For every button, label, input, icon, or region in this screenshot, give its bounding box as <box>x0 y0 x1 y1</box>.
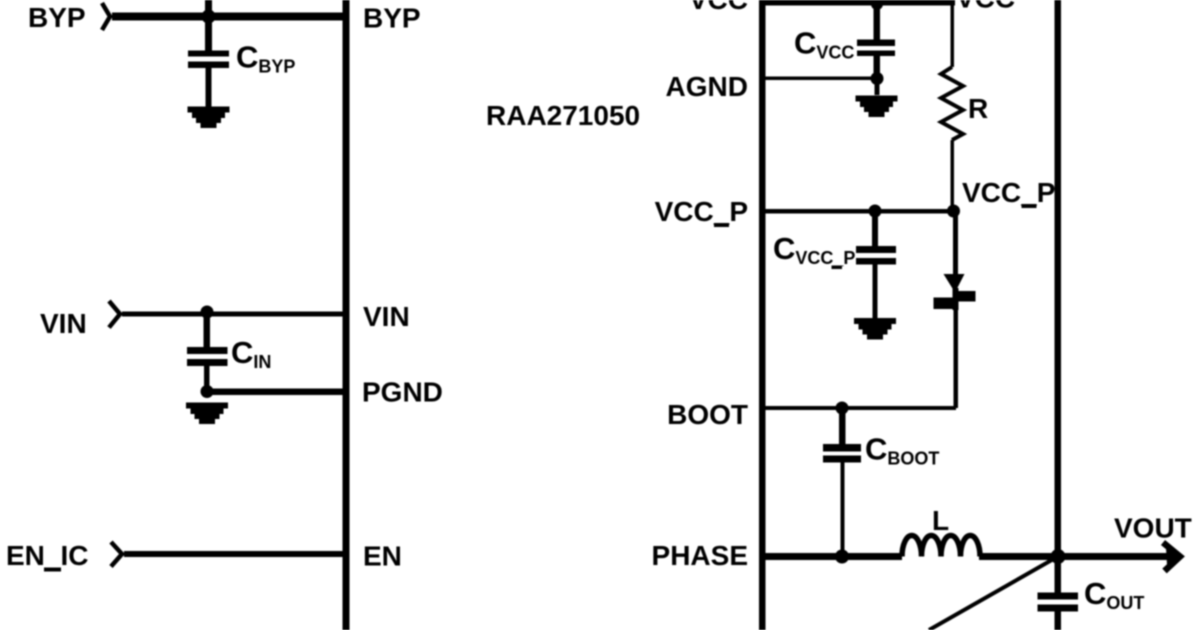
svg-text:VCC: VCC <box>689 0 748 15</box>
svg-text:BOOT: BOOT <box>667 399 748 430</box>
svg-text:VIN: VIN <box>40 308 87 339</box>
svg-text:VIN: VIN <box>363 301 410 332</box>
svg-text:VCC_P: VCC_P <box>655 196 748 227</box>
svg-text:AGND: AGND <box>666 71 748 102</box>
svg-text:EN: EN <box>363 541 402 572</box>
svg-text:VCC: VCC <box>956 0 1015 14</box>
svg-text:BYP: BYP <box>363 3 421 34</box>
svg-text:VCC_P: VCC_P <box>962 177 1055 208</box>
svg-text:PHASE: PHASE <box>652 540 748 571</box>
svg-text:VOUT: VOUT <box>1114 513 1192 544</box>
svg-text:PGND: PGND <box>362 377 443 408</box>
svg-text:BYP: BYP <box>28 2 86 33</box>
svg-text:RAA271050: RAA271050 <box>486 100 640 131</box>
svg-text:EN_IC: EN_IC <box>6 540 88 571</box>
svg-text:R: R <box>968 93 988 124</box>
svg-text:L: L <box>932 505 949 536</box>
